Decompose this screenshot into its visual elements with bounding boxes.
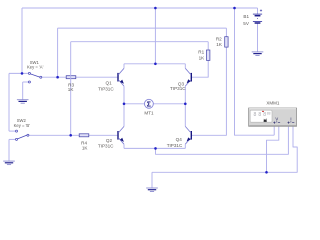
svg-text:Key = 'B': Key = 'B' (14, 123, 31, 128)
svg-text:1K: 1K (216, 42, 223, 47)
svg-text:MT1: MT1 (144, 111, 154, 116)
svg-text:Q1: Q1 (106, 81, 113, 86)
svg-text:888: 888 (254, 112, 267, 118)
svg-text:Key = 'A': Key = 'A' (27, 65, 44, 70)
svg-text:TIP31C: TIP31C (170, 86, 186, 91)
svg-text:1K: 1K (82, 145, 89, 150)
svg-text:R1: R1 (198, 50, 204, 55)
svg-text:XMM1: XMM1 (266, 101, 279, 106)
svg-text:TIP31C: TIP31C (98, 144, 114, 149)
svg-text:1K: 1K (199, 56, 206, 61)
svg-text:5V: 5V (243, 21, 250, 26)
svg-text:Q4: Q4 (176, 137, 183, 142)
svg-text:1K: 1K (68, 87, 75, 92)
svg-text:88: 88 (267, 111, 271, 115)
svg-text:B1: B1 (243, 14, 249, 19)
svg-text:TIP31C: TIP31C (167, 143, 183, 148)
svg-text:V: V (275, 117, 278, 122)
svg-text:Σ: Σ (147, 102, 151, 109)
svg-text:TIP31C: TIP31C (98, 87, 114, 92)
svg-text:Q2: Q2 (106, 138, 113, 143)
svg-text:I: I (290, 117, 291, 122)
